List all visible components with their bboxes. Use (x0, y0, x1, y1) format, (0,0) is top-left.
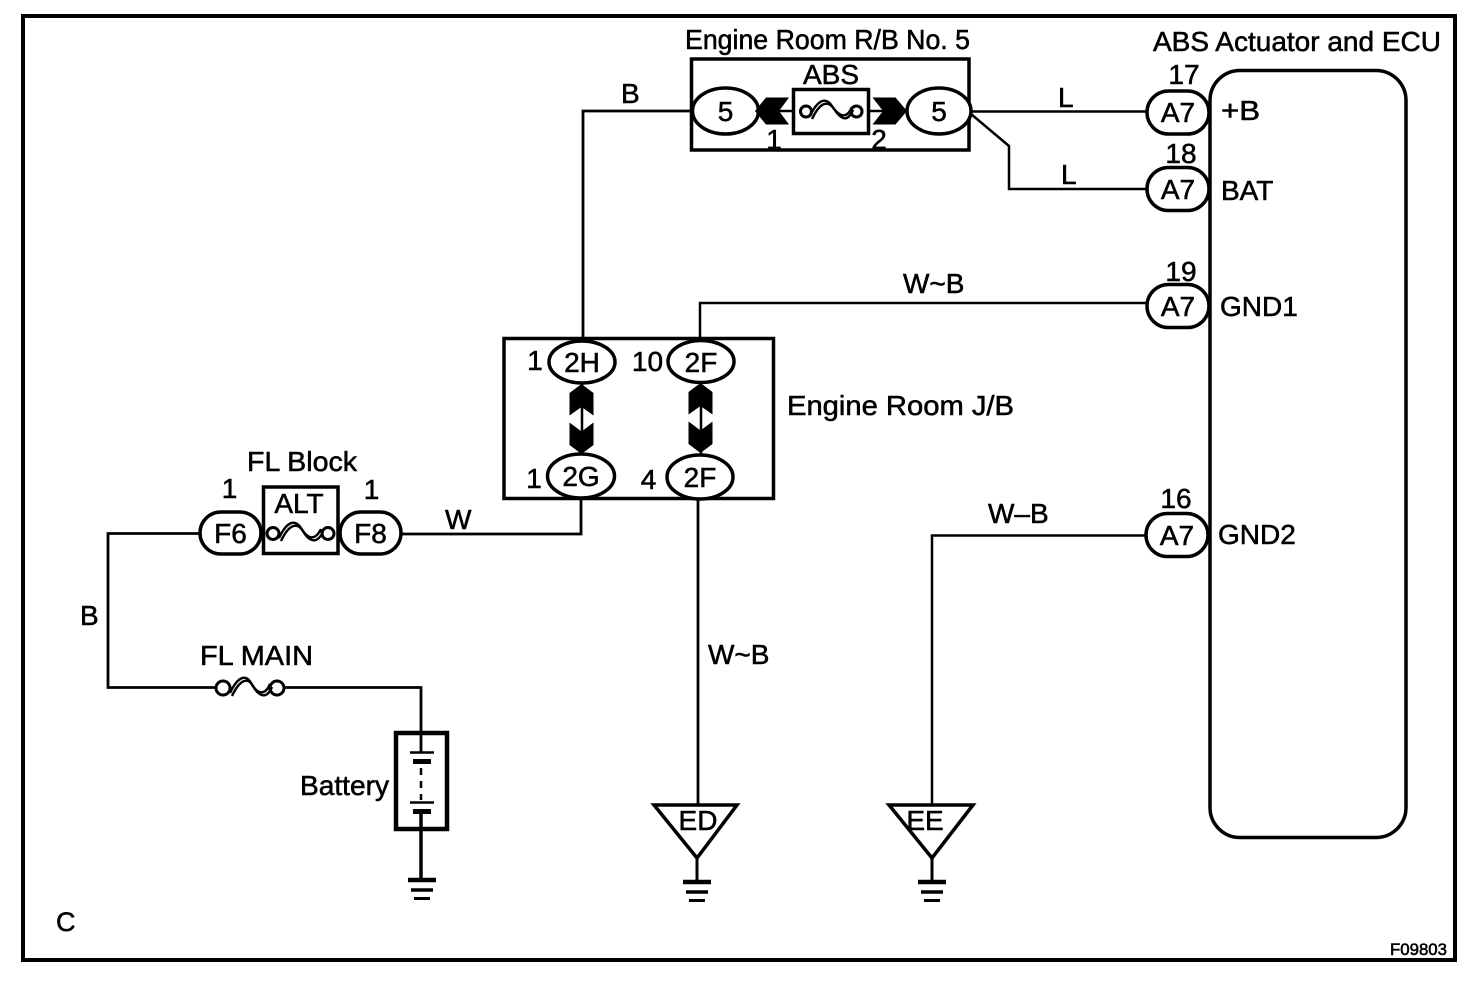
ground symbol EE (918, 880, 946, 885)
svg-text:5: 5 (931, 96, 947, 127)
wire L to BAT terminal (971, 114, 1148, 189)
svg-text:A7: A7 (1161, 291, 1195, 322)
svg-text:ALT: ALT (274, 488, 323, 519)
fuse ALT terminal circle left (267, 528, 279, 540)
svg-text:FL Block: FL Block (247, 446, 358, 477)
fuse terminal circle right (851, 106, 862, 117)
wire ED apex to ground (696, 856, 699, 881)
battery dashed center (420, 768, 423, 800)
svg-text:BAT: BAT (1221, 175, 1273, 206)
wire from FL MAIN to battery (284, 688, 421, 753)
J/B arrow down (left column) (570, 423, 594, 455)
svg-text:2F: 2F (684, 462, 717, 493)
svg-text:2G: 2G (562, 461, 599, 492)
svg-text:+B: +B (1221, 95, 1260, 126)
svg-text:F8: F8 (354, 518, 387, 549)
wire battery to ground (419, 811, 423, 880)
svg-text:16: 16 (1160, 483, 1191, 514)
svg-text:ABS: ABS (803, 59, 859, 90)
svg-text:18: 18 (1165, 138, 1196, 169)
svg-text:L: L (1061, 159, 1077, 190)
ABS Actuator and ECU box (1210, 71, 1406, 838)
battery plate thin bottom (410, 801, 434, 804)
svg-text:2H: 2H (564, 347, 600, 378)
svg-text:F09803: F09803 (1390, 941, 1447, 959)
fuse ALT terminal circle right (322, 528, 334, 540)
ground symbol ED (683, 880, 711, 885)
svg-text:5: 5 (718, 96, 734, 127)
svg-text:B: B (80, 600, 99, 631)
wire stub fuse to oval5R (868, 110, 908, 113)
svg-text:EE: EE (906, 805, 943, 836)
svg-text:4: 4 (641, 464, 657, 495)
svg-text:ED: ED (679, 805, 718, 836)
battery plate thick bottom (413, 809, 431, 814)
connector A7 pin 19 (1147, 285, 1209, 328)
J/B arrow up (right column) (689, 383, 713, 415)
arrow 1 (pointing left) (755, 98, 789, 125)
wire W-B from EE ground to GND2 (932, 536, 1148, 807)
svg-text:W~B: W~B (903, 268, 964, 299)
svg-text:C: C (56, 907, 76, 937)
svg-text:Engine Room J/B: Engine Room J/B (787, 390, 1014, 421)
wire B from F6 down to FL MAIN (108, 534, 216, 688)
connector A7 pin 16 (1146, 514, 1208, 557)
connector A7 pin 18 (1147, 168, 1209, 211)
fuse terminal circle left (801, 106, 812, 117)
connector 2F (4) (667, 455, 733, 499)
svg-text:2F: 2F (685, 347, 718, 378)
J/B arrow down (right column) (689, 422, 713, 454)
wire W from FL Block F8 to J/B 2G (401, 498, 581, 534)
svg-text:10: 10 (632, 346, 663, 377)
fuse ABS box (794, 90, 869, 134)
svg-text:W–B: W–B (988, 498, 1049, 529)
svg-text:A7: A7 (1160, 520, 1194, 551)
connector 2G (548, 454, 615, 498)
ground EE triangle (889, 805, 973, 858)
svg-text:GND1: GND1 (1220, 291, 1298, 322)
svg-text:Battery: Battery (300, 770, 389, 801)
wire EE apex to ground (931, 856, 934, 881)
FL Block box (264, 487, 339, 554)
svg-text:19: 19 (1165, 256, 1196, 287)
svg-text:A7: A7 (1161, 174, 1195, 205)
connector F8 (340, 512, 401, 554)
svg-text:2: 2 (871, 124, 887, 155)
connector 5 (right) (907, 88, 971, 134)
wire W~B from J/B 2F(4) down to ED ground (697, 455, 700, 806)
connector 2F (10) (668, 341, 734, 383)
connector 5 (left) (693, 88, 759, 134)
svg-text:ABS Actuator and ECU: ABS Actuator and ECU (1153, 26, 1441, 57)
battery plate thick top (413, 759, 431, 764)
wire W~B from J/B 2F(10) to GND1 (700, 303, 1148, 342)
svg-text:B: B (621, 78, 640, 109)
fuse ABS wavy element (810, 101, 852, 116)
FL Block wire across (261, 532, 341, 535)
Battery box (396, 733, 447, 829)
svg-text:F6: F6 (214, 518, 247, 549)
svg-text:1: 1 (364, 474, 380, 505)
FL MAIN wavy element (230, 678, 270, 693)
FL MAIN terminal circle left (216, 681, 230, 695)
arrow 2 (pointing right) (873, 98, 908, 125)
svg-text:17: 17 (1168, 59, 1199, 90)
connector A7 pin 17 (1147, 91, 1209, 134)
battery plate thin top (410, 751, 434, 754)
ground ED triangle (654, 805, 737, 858)
wire B from Engine Room R/B No.5 down to J/B 2H (583, 111, 692, 342)
fuse ALT wavy element (279, 523, 321, 538)
connector 2H (549, 341, 615, 383)
svg-text:L: L (1058, 82, 1074, 113)
svg-text:FL MAIN: FL MAIN (200, 640, 313, 671)
FL MAIN terminal circle right (270, 681, 284, 695)
J/B arrow up (left column) (570, 384, 594, 416)
svg-text:1: 1 (766, 124, 782, 155)
svg-text:Engine Room R/B No. 5: Engine Room R/B No. 5 (685, 24, 970, 55)
svg-text:W: W (445, 504, 472, 535)
Engine Room J/B box (504, 339, 774, 499)
J/B internal wire 2H-2G (581, 383, 584, 455)
wire stub oval5L to fuse (757, 110, 794, 113)
svg-text:1: 1 (222, 473, 238, 504)
svg-text:1: 1 (527, 345, 543, 376)
connector F6 (200, 512, 261, 554)
wire L to +B terminal (970, 110, 1148, 113)
svg-text:W~B: W~B (708, 639, 769, 670)
Engine Room R/B No.5 box (692, 59, 970, 150)
svg-text:1: 1 (526, 463, 542, 494)
battery ground (408, 878, 436, 883)
svg-text:GND2: GND2 (1218, 519, 1296, 550)
svg-text:A7: A7 (1161, 97, 1195, 128)
J/B internal wire 2F-2F (700, 382, 703, 455)
